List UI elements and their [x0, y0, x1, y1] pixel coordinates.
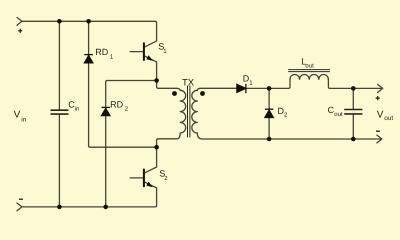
wire L_out right to output + terminal — [328, 79, 381, 88]
input - terminal chevron — [17, 203, 22, 211]
svg-text:in: in — [21, 116, 26, 123]
svg-text:out: out — [384, 115, 393, 122]
transistor S2 collector from node B — [145, 147, 157, 173]
svg-text:RD: RD — [95, 47, 108, 57]
node B (S2 collector / RD1 / primary bottom) — [154, 145, 159, 150]
inductor L_out winding — [290, 74, 328, 79]
svg-text:V: V — [14, 110, 21, 121]
wire C_out branch upper — [352, 88, 354, 109]
diode D1 — [237, 84, 246, 93]
transformer secondary bottom lead to output bottom rail — [197, 133, 380, 139]
junction C_in top — [57, 19, 62, 24]
transistor S2 base bar — [143, 170, 145, 187]
inductor core bar 2 — [289, 71, 330, 73]
junction D2 bottom — [267, 137, 272, 142]
wire node A to RD2 top — [106, 81, 157, 108]
transformer phase dot primary — [172, 91, 177, 96]
capacitor C_in plates — [51, 110, 69, 114]
wire transformer primary bottom to node B — [157, 133, 181, 147]
wire RD2 bottom — [105, 116, 107, 207]
svg-text:out: out — [334, 112, 343, 118]
label + output — [376, 96, 380, 100]
svg-text:RD: RD — [110, 99, 123, 109]
wire node A to transformer primary top — [157, 81, 181, 91]
node A (S1 emitter / RD2 / primary top) — [154, 78, 159, 83]
transistor S2 emitter arrow — [146, 182, 153, 188]
input + terminal chevron — [17, 17, 22, 25]
wire C_out branch lower — [352, 114, 354, 139]
diode RD1 — [84, 55, 93, 63]
transformer secondary winding — [192, 90, 197, 133]
wire bottom rail from S2 emitter — [22, 188, 157, 207]
junction RD1 top — [86, 19, 91, 24]
inductor core bar 1 — [289, 69, 330, 71]
output - terminal arrow — [377, 135, 382, 143]
junction L_out / C_out top — [351, 86, 356, 91]
diode D2 — [265, 109, 273, 117]
transformer phase dot secondary — [200, 91, 205, 96]
transistor S2 base lead — [130, 177, 144, 179]
svg-text:out: out — [305, 64, 314, 70]
svg-text:V: V — [377, 109, 384, 120]
wire RD1 bottom to node B — [89, 63, 157, 147]
wire RD1 branch upper — [88, 21, 90, 54]
transistor S1 collector diagonal — [145, 41, 157, 47]
transistor S2 emitter diagonal — [145, 182, 157, 188]
transistor S1 emitter diagonal — [145, 56, 157, 62]
svg-text:in: in — [75, 105, 80, 112]
junction C_in bottom — [57, 205, 62, 210]
junction C_out bottom — [351, 137, 356, 142]
capacitor C_out plates — [344, 110, 362, 114]
wire C_in branch lower — [58, 114, 60, 207]
output + terminal arrow — [378, 85, 383, 93]
wire D2 branch upper — [268, 88, 270, 109]
label - output — [376, 130, 380, 132]
junction D1 cathode / D2 top — [267, 86, 272, 91]
wire S1 emitter to node A — [156, 62, 158, 81]
wire D1 cathode to node — [246, 79, 290, 88]
transformer primary winding — [180, 90, 185, 133]
wire C_in branch upper — [58, 21, 60, 110]
wire D2 branch lower — [268, 118, 270, 140]
transistor S1 emitter arrow — [146, 55, 153, 61]
svg-text:TX: TX — [182, 78, 195, 89]
transformer secondary top lead — [197, 88, 237, 90]
label + input — [18, 29, 22, 33]
wire top rail into S1 collector — [22, 21, 157, 41]
transformer core lines — [188, 86, 190, 138]
label - input — [19, 198, 23, 200]
transistor S1 base lead — [130, 51, 144, 53]
transistor S1 base bar — [143, 43, 145, 60]
diode RD2 — [102, 107, 111, 115]
junction RD2 bottom — [103, 205, 108, 210]
